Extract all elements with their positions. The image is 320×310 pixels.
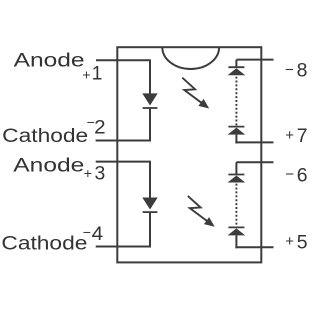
light arrow channel 1 [182,78,209,109]
svg-text:7: 7 [297,126,308,147]
svg-text:+: + [84,165,92,181]
wire LED D2 anode branch [149,162,151,199]
LED D1 triangle [142,93,157,105]
wire pin 8 [236,59,273,61]
svg-text:1: 1 [92,64,103,85]
svg-text:8: 8 [297,61,308,82]
photodiode PD1b triangle [228,128,246,135]
svg-text:−: − [285,61,294,78]
svg-text:Anode: Anode [13,155,84,176]
wire LED D1 anode branch [149,60,151,94]
wire pin 5 [235,246,273,248]
photodiode PD2a cathode bar [228,174,244,176]
wire pin 2 [96,140,151,142]
wire LED D2 cathode branch [149,213,151,248]
wire pin 3 [96,161,151,163]
photodiode PD2b cathode bar [228,226,244,228]
svg-text:2: 2 [94,118,106,139]
IC package outline U1 [117,47,261,262]
svg-text:+: + [285,233,294,250]
svg-text:+: + [285,127,294,144]
LED D2 cathode bar [143,211,158,213]
wire photodiode stack PD2 cathode stub [235,162,237,174]
wire pin 7 [235,141,273,143]
photodiode PD2a triangle [228,176,246,183]
wire photodiode stack PD1 anode stub [235,135,237,144]
photodiode PD1b cathode bar [228,126,244,128]
svg-text:−: − [285,166,294,183]
LED D2 triangle [142,198,157,210]
wire pin 1 [96,59,151,61]
svg-text:Cathode: Cathode [2,126,88,147]
LED D1 cathode bar [143,107,158,109]
wire photodiode stack PD2 anode stub [235,235,237,248]
svg-text:−: − [83,224,91,240]
svg-text:Cathode: Cathode [1,233,87,254]
svg-text:4: 4 [92,224,104,245]
dotted series connection PD1 [235,77,237,126]
light arrow channel 2 [188,196,215,227]
svg-text:6: 6 [297,165,308,186]
photodiode PD1a triangle [228,68,246,75]
pin-1 index notch [162,47,219,69]
wire pin 6 [236,161,273,163]
photodiode PD2b triangle [228,228,246,235]
dotted series connection PD2 [235,184,237,227]
svg-text:Anode: Anode [14,50,85,71]
svg-text:3: 3 [95,163,106,184]
wire pin 4 [96,246,151,248]
svg-text:+: + [82,67,90,83]
wire photodiode stack PD1 cathode stub [235,60,237,68]
wire LED D1 cathode branch [149,109,151,142]
svg-text:5: 5 [297,233,308,254]
photodiode PD1a cathode bar [228,66,244,68]
